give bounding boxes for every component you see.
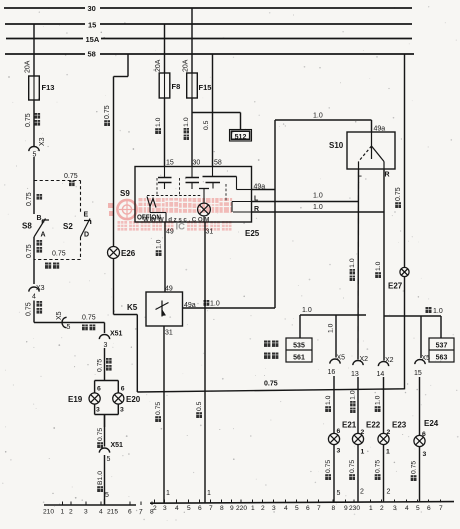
svg-text:B1.0: B1.0	[97, 471, 104, 485]
wire: bus15 to fuse F8	[164, 24, 166, 73]
wire blue 1.0 to E23	[375, 377, 384, 434]
svg-text:561: 561	[293, 355, 305, 362]
svg-text:7: 7	[209, 505, 213, 512]
svg-text:1.0: 1.0	[328, 323, 335, 333]
wire green 1.0 to E21	[325, 376, 334, 434]
connector unit 512	[230, 130, 252, 142]
svg-text:0.75: 0.75	[325, 460, 332, 473]
svg-text:2: 2	[387, 429, 391, 436]
svg-text:220: 220	[236, 505, 247, 512]
svg-text:S9: S9	[120, 189, 130, 198]
svg-text:563: 563	[436, 355, 448, 362]
wire label 0.75 white/green horizontal	[82, 315, 96, 331]
svg-text:3: 3	[104, 342, 108, 349]
wire black B1.0 to ground bus	[97, 455, 109, 505]
svg-text:E24: E24	[424, 419, 439, 428]
svg-text:1: 1	[207, 490, 211, 497]
wire white/green 1.0 to E22	[350, 377, 358, 434]
svg-text:49: 49	[165, 286, 173, 293]
svg-text:E20: E20	[126, 395, 141, 404]
svg-text:2: 2	[360, 489, 364, 496]
svg-text:2: 2	[153, 505, 157, 512]
svg-text:1: 1	[361, 449, 365, 456]
svg-text:9: 9	[230, 505, 234, 512]
wire black 0.5: S9 31 to ground	[196, 222, 211, 503]
svg-text:20A: 20A	[25, 60, 32, 73]
svg-text:E: E	[84, 212, 89, 219]
wire E26 down with jog to 0.75 tie line	[114, 259, 138, 393]
connector X5 pin 16	[328, 355, 346, 377]
svg-text:1.0: 1.0	[349, 258, 356, 268]
bus 15	[5, 21, 412, 30]
svg-text:16: 16	[328, 369, 336, 376]
svg-text:7: 7	[439, 505, 443, 512]
svg-text:15: 15	[166, 160, 174, 167]
svg-text:1.0: 1.0	[433, 308, 443, 315]
svg-text:5: 5	[337, 490, 341, 497]
S9 output lines 49a L R	[252, 184, 385, 214]
svg-text:0.75: 0.75	[97, 428, 104, 441]
svg-text:6: 6	[97, 386, 101, 393]
connector X2 pin 13	[351, 356, 368, 378]
svg-text:0.75: 0.75	[26, 192, 33, 206]
svg-text:535: 535	[293, 343, 305, 350]
wire black 0.75: E22 to ground	[349, 445, 364, 503]
wire brown 0.75: bus58 to E27	[395, 54, 404, 268]
svg-text:1.0: 1.0	[156, 239, 163, 249]
wire black 1.0: R line down	[375, 169, 384, 361]
wire 0.75 white/green: S8 to X3	[26, 237, 42, 284]
svg-text:2: 2	[261, 505, 265, 512]
switch S2 contacts D/E (dashed branch)	[34, 212, 91, 269]
svg-text:S10: S10	[329, 141, 344, 150]
connector X51 pin 5 (lower)	[99, 442, 123, 463]
svg-text:0.75: 0.75	[155, 402, 162, 415]
wire: bus30 to fuse F15	[191, 8, 193, 73]
lamps E19 and E20 parallel pair	[68, 381, 141, 428]
svg-text:1.0: 1.0	[155, 117, 162, 127]
svg-text:4: 4	[32, 294, 36, 301]
wire blue 1.0: S9 terminal 49 to K5	[156, 222, 165, 292]
svg-text:E27: E27	[388, 282, 403, 291]
svg-text:3: 3	[393, 505, 397, 512]
svg-text:IC: IC	[176, 221, 186, 232]
svg-text:49a: 49a	[254, 184, 266, 191]
svg-text:15: 15	[88, 21, 96, 30]
connector X3 pin 4	[29, 285, 45, 301]
svg-text:2: 2	[387, 489, 391, 496]
wire E27 down to tie line	[404, 277, 406, 390]
svg-text:1.0: 1.0	[325, 395, 332, 405]
svg-text:X51: X51	[111, 442, 124, 449]
svg-text:0.75: 0.75	[395, 187, 402, 201]
svg-text:6: 6	[128, 509, 132, 516]
svg-text:OFF|ON: OFF|ON	[137, 214, 161, 221]
wire 0.75 white/green to E19/E20	[97, 348, 112, 381]
switch S8 contacts A/B	[22, 215, 49, 239]
svg-text:6: 6	[427, 505, 431, 512]
svg-text:58: 58	[214, 160, 222, 167]
svg-text:6: 6	[198, 505, 202, 512]
svg-text:3: 3	[120, 407, 124, 414]
switch S10 (turn signal switch)	[329, 126, 395, 179]
svg-text:E21: E21	[342, 421, 357, 430]
wire 0.75 white: X3 to S8	[26, 157, 42, 214]
svg-text:1.0: 1.0	[183, 117, 190, 127]
svg-text:R: R	[385, 172, 390, 179]
svg-text:7: 7	[139, 509, 143, 516]
lamp E27	[388, 267, 409, 290]
svg-text:13: 13	[351, 371, 359, 378]
svg-text:30: 30	[88, 4, 96, 13]
svg-text:K5: K5	[127, 303, 138, 312]
svg-text:2: 2	[380, 505, 384, 512]
svg-text:X2: X2	[360, 356, 369, 363]
svg-text:6: 6	[306, 505, 310, 512]
svg-text:B: B	[37, 215, 42, 222]
wire black 0.75 to X51	[97, 415, 104, 449]
switch unit S9 (hazard warning switch)	[120, 160, 260, 239]
svg-text:E22: E22	[366, 421, 381, 430]
svg-text:0.5: 0.5	[203, 120, 210, 130]
svg-text:0.75: 0.75	[26, 302, 33, 316]
relay K5 (flasher)	[127, 286, 196, 337]
svg-text:2: 2	[361, 429, 365, 436]
lamp E21	[328, 421, 356, 455]
svg-text:S8: S8	[22, 222, 32, 231]
wire: bus15 to fuse F13	[33, 24, 35, 76]
dashed wire 0.75 white to S2	[34, 173, 81, 214]
svg-text:0.75: 0.75	[25, 113, 32, 127]
svg-text:4: 4	[99, 509, 103, 516]
lamp E26	[108, 247, 136, 259]
connector X5 pin 5	[56, 311, 71, 331]
svg-text:8: 8	[332, 505, 336, 512]
svg-text:5: 5	[105, 492, 109, 499]
svg-text:512: 512	[235, 134, 247, 141]
svg-text:4: 4	[405, 505, 409, 512]
svg-text:7: 7	[317, 505, 321, 512]
svg-text:X5: X5	[422, 355, 431, 362]
wire blue 1.0: F8 to S9 terminal 15	[155, 98, 164, 167]
wire 0.5 branch to unit 512	[192, 113, 241, 131]
svg-text:1.0: 1.0	[313, 204, 323, 211]
cluster connector 537/563 (right turn indicator)	[429, 338, 454, 362]
svg-text:F8: F8	[172, 82, 181, 91]
svg-text:0.75: 0.75	[26, 244, 33, 258]
svg-text:0.75: 0.75	[264, 381, 278, 388]
svg-text:E19: E19	[68, 395, 83, 404]
svg-text:E25: E25	[245, 229, 260, 238]
svg-text:0.75: 0.75	[52, 251, 66, 258]
svg-text:0.75: 0.75	[82, 315, 96, 322]
svg-text:0.75: 0.75	[104, 105, 111, 119]
cluster connector 535/561 (left turn indicator)	[264, 338, 312, 362]
fuse F8 20A	[155, 59, 180, 98]
svg-text:15A: 15A	[86, 35, 100, 44]
svg-text:3: 3	[423, 451, 427, 458]
connector X5 pin 15	[414, 355, 430, 377]
svg-text:1.0: 1.0	[350, 390, 357, 400]
svg-text:0.75: 0.75	[375, 460, 382, 473]
svg-text:2: 2	[69, 509, 73, 516]
svg-text:1: 1	[61, 509, 65, 516]
svg-text:0.5: 0.5	[196, 401, 203, 411]
lamp E24	[414, 419, 439, 458]
wire red/black 1.0: F15 to S9 terminal 30	[183, 98, 192, 167]
svg-text:R: R	[254, 206, 259, 213]
fuse F13 20A	[25, 60, 55, 100]
svg-text:30: 30	[193, 160, 201, 167]
svg-text:5: 5	[187, 505, 191, 512]
lamp E22	[352, 421, 380, 456]
svg-text:1.0: 1.0	[313, 113, 323, 120]
svg-text:31: 31	[165, 330, 173, 337]
svg-text:210: 210	[43, 509, 54, 516]
svg-text:5: 5	[67, 324, 71, 331]
bus 58	[5, 50, 414, 59]
ground bus left with terminals 210-218	[43, 499, 154, 516]
watermark: dzsc.com seal and text	[108, 198, 232, 232]
svg-text:1: 1	[386, 449, 390, 456]
wire black 0.75: E23 to ground	[375, 445, 391, 503]
connector X2 pin 14	[377, 357, 394, 378]
svg-text:X51: X51	[110, 331, 123, 338]
ground bus right with terminals 220-237	[150, 500, 454, 513]
bus 30	[4, 4, 412, 13]
svg-text:9: 9	[344, 505, 348, 512]
svg-text:L: L	[254, 196, 259, 203]
svg-text:0.75: 0.75	[64, 173, 78, 180]
svg-text:3: 3	[163, 505, 167, 512]
svg-text:0.75: 0.75	[411, 461, 418, 474]
wire 1.0: L node to cluster 535/561 and X5 pin16	[300, 307, 366, 358]
svg-text:X3: X3	[36, 285, 45, 292]
lamp E23	[378, 421, 407, 456]
svg-text:8: 8	[220, 505, 224, 512]
svg-text:E23: E23	[392, 421, 407, 430]
connector X3 pin 5	[29, 137, 46, 158]
svg-text:215: 215	[107, 509, 118, 516]
wire black 0.75: E24 to ground	[411, 447, 420, 503]
wire brown 0.75 from bus 58 to E26	[104, 54, 128, 247]
wire 0.75 tie line E26 to E27	[137, 381, 404, 393]
svg-text:4: 4	[284, 505, 288, 512]
svg-text:15: 15	[414, 370, 422, 377]
svg-text:14: 14	[377, 371, 385, 378]
svg-text:3: 3	[272, 505, 276, 512]
svg-text:1: 1	[251, 505, 255, 512]
connector X51 pin 3	[99, 323, 122, 350]
svg-text:F15: F15	[199, 83, 212, 92]
svg-text:X5: X5	[337, 355, 346, 362]
wire: bus58 to S9 terminal 58	[212, 54, 214, 167]
svg-text:3: 3	[337, 448, 341, 455]
wire 0.75 red/white: F13 to X3	[25, 100, 40, 146]
wire black 0.75: E21 to ground	[325, 445, 340, 503]
svg-text:537: 537	[436, 343, 448, 350]
svg-text:0.75: 0.75	[349, 460, 356, 473]
svg-text:6: 6	[121, 386, 125, 393]
svg-text:230: 230	[349, 505, 360, 512]
svg-text:0.75: 0.75	[97, 359, 104, 372]
svg-text:1: 1	[369, 505, 373, 512]
svg-text:1.0: 1.0	[313, 193, 323, 200]
svg-text:31: 31	[206, 229, 214, 236]
svg-text:20A: 20A	[183, 59, 190, 72]
svg-text:1.0: 1.0	[375, 395, 382, 405]
svg-text:X3: X3	[39, 137, 46, 146]
wire 0.75 white/green down and right through X5	[26, 301, 105, 323]
svg-text:S2: S2	[63, 222, 73, 231]
svg-text:1.0: 1.0	[210, 301, 220, 308]
svg-text:1.0: 1.0	[375, 261, 382, 271]
svg-text:1: 1	[166, 490, 170, 497]
svg-text:49: 49	[166, 229, 174, 236]
svg-text:3: 3	[84, 509, 88, 516]
svg-text:X2: X2	[385, 357, 394, 364]
fuse F15 20A	[183, 59, 212, 98]
bus 15A	[6, 35, 412, 44]
svg-text:58: 58	[88, 50, 96, 59]
wire purple 1.0: K5 49a to node	[183, 300, 276, 308]
wire to E24	[419, 377, 421, 436]
wire white/black 1.0: L line down	[349, 169, 358, 360]
svg-text:3: 3	[96, 407, 100, 414]
svg-text:4: 4	[175, 505, 179, 512]
svg-text:5: 5	[295, 505, 299, 512]
svg-text:D: D	[84, 232, 89, 239]
svg-text:X5: X5	[56, 311, 63, 320]
svg-text:49a: 49a	[374, 126, 386, 133]
svg-text:5: 5	[416, 505, 420, 512]
wire black 0.75: K5 31 to ground	[155, 326, 170, 503]
wire 49a node: up-and-over to S10	[275, 113, 372, 309]
wire blue 1.0: R node to cluster 537/563 and X5 pin15	[384, 307, 443, 358]
svg-text:20A: 20A	[155, 59, 162, 72]
svg-text:A: A	[41, 232, 46, 239]
svg-text:E26: E26	[121, 249, 136, 258]
svg-text:1.0: 1.0	[302, 307, 312, 314]
svg-text:5: 5	[107, 456, 111, 463]
svg-text:6: 6	[337, 428, 341, 435]
svg-text:6: 6	[422, 431, 426, 438]
svg-text:F13: F13	[42, 83, 55, 92]
